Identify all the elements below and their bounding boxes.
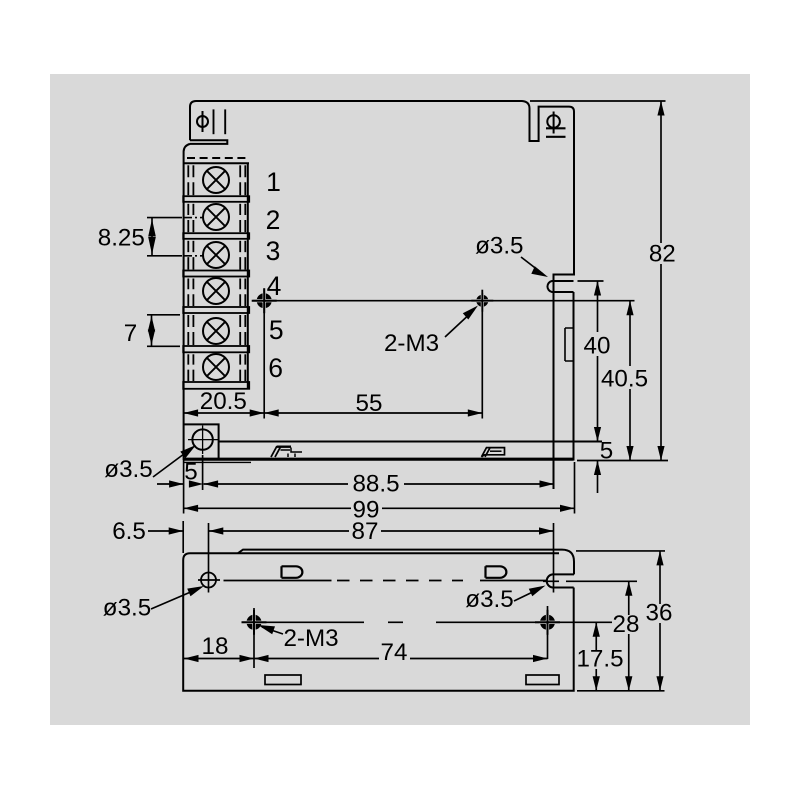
terminal block top dashed edge — [187, 157, 248, 159]
row3 center dashdot — [184, 255, 204, 257]
leader arrow to bottom left hole — [153, 448, 192, 477]
svg-text:40: 40 — [584, 333, 611, 360]
hole left extension vertical — [208, 523, 210, 593]
terminal screw 1 — [203, 167, 229, 193]
terminal separator bar 6 — [183, 382, 249, 389]
terminal screw 3 — [203, 242, 229, 268]
M3 hole crosshair right extension — [554, 621, 628, 623]
dim 28 — [566, 580, 637, 582]
right side keyhole slot — [547, 281, 573, 292]
svg-text:2-M3: 2-M3 — [283, 625, 338, 652]
terminal cell rails 3 — [187, 241, 189, 252]
dim 74 — [254, 658, 548, 660]
svg-text:2-M3: 2-M3 — [384, 330, 439, 357]
leader arrow to keyhole slot — [521, 257, 543, 274]
AC input symbol bars — [213, 109, 215, 134]
M3 hole marker right — [478, 297, 486, 305]
svg-text:8.25: 8.25 — [98, 225, 145, 252]
vent bracket on right edge — [565, 328, 573, 361]
left edge extension for 99 — [183, 460, 185, 514]
leader arrow 2-M3 side view — [445, 310, 474, 337]
svg-text:82: 82 — [649, 241, 676, 268]
svg-text:6: 6 — [268, 353, 283, 383]
hole left bottom view — [201, 573, 216, 588]
terminal separator bar 5 — [183, 346, 249, 352]
dim 40.5 — [629, 301, 631, 461]
ground symbol in top right box — [547, 115, 560, 128]
dim 17.5 — [595, 622, 597, 691]
svg-text:1: 1 — [266, 167, 281, 197]
svg-text:17.5: 17.5 — [576, 646, 623, 673]
bottom view lid line and corner — [238, 550, 574, 575]
svg-text:5: 5 — [600, 438, 613, 465]
input label box bottom lip — [190, 140, 227, 144]
left edge extension above bottom view — [182, 521, 184, 553]
svg-text:88.5: 88.5 — [352, 471, 399, 498]
terminal screw 5 — [203, 318, 229, 344]
svg-text:55: 55 — [356, 390, 383, 417]
dim 87 — [209, 530, 554, 532]
svg-text:2: 2 — [266, 205, 281, 235]
vent rect left — [265, 675, 301, 685]
flange bottom edge — [184, 458, 574, 461]
terminal cell rails 4 — [187, 279, 189, 290]
M3 hole marker left — [259, 296, 269, 306]
dim 7 — [151, 315, 153, 347]
AC input symbol phi — [197, 116, 208, 127]
dim 82 — [530, 100, 666, 102]
svg-text:3: 3 — [266, 236, 281, 266]
terminal block top cap line — [184, 162, 249, 164]
slot top extension line — [578, 280, 604, 282]
bottom reference line right — [577, 460, 668, 462]
dim 99 — [184, 507, 575, 509]
terminal cell rails 2 — [187, 204, 189, 215]
svg-text:ø3.5: ø3.5 — [104, 456, 152, 483]
case left edge — [184, 144, 190, 460]
dim 88.5 — [204, 483, 554, 485]
svg-text:28: 28 — [613, 611, 640, 638]
terminal separator bar 2 — [183, 233, 249, 239]
dim 5 right — [594, 461, 601, 476]
bottom view outline — [183, 553, 574, 691]
dim 20.5 — [184, 412, 265, 414]
dim 55 — [264, 412, 482, 414]
svg-text:ø3.5: ø3.5 — [465, 586, 513, 613]
case right inner edge below slot — [553, 293, 555, 489]
M3 left extension vertical — [253, 608, 255, 668]
M3 right extension vertical — [547, 606, 549, 659]
terminal cell rails 6 — [187, 354, 189, 364]
flange snap tab right — [482, 448, 505, 457]
dim 8.25 reference lines — [147, 217, 182, 219]
dim 40 — [597, 281, 599, 442]
flange top line — [219, 441, 602, 443]
leader arrow 2-M3 bottom view — [262, 627, 283, 634]
bottom left mounting box — [184, 424, 219, 458]
hole 4 extension vertical — [263, 289, 265, 419]
right edge extension for 99 — [574, 462, 576, 514]
dim 5 left — [157, 483, 184, 485]
svg-text:ø3.5: ø3.5 — [103, 595, 151, 622]
terminal separator bar 3 — [183, 271, 249, 277]
slot crosshair — [543, 580, 559, 582]
svg-text:5: 5 — [184, 459, 197, 486]
svg-text:7: 7 — [124, 320, 137, 347]
svg-text:ø3.5: ø3.5 — [475, 233, 523, 260]
svg-text:5: 5 — [269, 315, 284, 345]
svg-text:6.5: 6.5 — [112, 518, 146, 545]
M3 hole bottom view right — [542, 617, 552, 627]
dim 18 — [184, 658, 254, 660]
case outline side view — [190, 101, 574, 293]
mounting hole bottom left — [192, 429, 212, 449]
row2 center dashdot — [184, 217, 204, 219]
terminal screw 2 — [203, 204, 229, 230]
M3 holes row dashed center line — [262, 621, 364, 623]
hole extension for 88.5 — [202, 455, 204, 490]
svg-text:40.5: 40.5 — [601, 365, 648, 392]
svg-text:20.5: 20.5 — [200, 388, 247, 415]
svg-text:36: 36 — [646, 600, 673, 627]
87 right extension vertical — [553, 523, 555, 593]
terminal separator bar 1 — [183, 196, 249, 202]
dim 8.25 — [151, 218, 153, 256]
svg-text:18: 18 — [202, 633, 229, 660]
dim 36 — [576, 550, 665, 552]
front panel bottom protrusion line — [184, 461, 251, 463]
bottom edge extension right — [577, 690, 665, 692]
vent rect right — [526, 675, 559, 685]
terminal cell rails 5 — [187, 315, 189, 327]
terminal screw 6 — [203, 354, 229, 380]
leader arrow bv left hole — [151, 588, 200, 609]
terminal cell rails 1 — [187, 165, 189, 177]
case right outer edge below slot — [573, 292, 575, 461]
terminal separator bar 4 — [183, 307, 249, 313]
terminal screw 4 — [203, 278, 229, 304]
M3 hole bottom view left — [249, 617, 259, 627]
leader arrow bv right slot — [514, 588, 541, 601]
svg-text:87: 87 — [352, 518, 379, 545]
bottom view keyhole slot right — [547, 574, 574, 587]
dashed line through holes row — [224, 580, 332, 582]
punchout D left — [282, 566, 303, 578]
dim 7 reference lines — [147, 314, 180, 316]
terminal block right edge — [247, 163, 249, 388]
punchout D right — [486, 566, 507, 578]
mounting hole row line — [253, 300, 635, 302]
svg-text:74: 74 — [381, 639, 408, 666]
flange snap tab left — [271, 446, 281, 457]
hole 2 extension vertical — [481, 293, 483, 419]
